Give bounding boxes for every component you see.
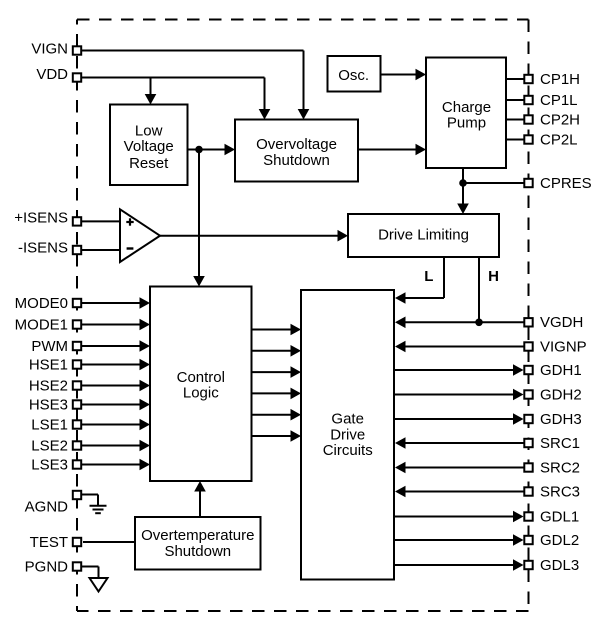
svg-text:Circuits: Circuits xyxy=(323,442,373,459)
svg-text:-ISENS: -ISENS xyxy=(18,240,68,257)
svg-text:CP1L: CP1L xyxy=(540,92,578,109)
svg-text:Overtemperature: Overtemperature xyxy=(141,527,254,544)
svg-text:L: L xyxy=(424,268,433,285)
svg-text:LSE3: LSE3 xyxy=(31,456,68,473)
svg-text:HSE3: HSE3 xyxy=(29,396,68,413)
svg-text:LSE1: LSE1 xyxy=(31,416,68,433)
svg-text:HSE2: HSE2 xyxy=(29,377,68,394)
svg-text:MODE1: MODE1 xyxy=(15,316,68,333)
svg-text:PGND: PGND xyxy=(25,558,69,575)
svg-text:CP1H: CP1H xyxy=(540,71,580,88)
svg-text:Pump: Pump xyxy=(447,114,486,131)
svg-text:GDH3: GDH3 xyxy=(540,411,582,428)
svg-text:CPRES: CPRES xyxy=(540,175,592,192)
svg-text:Shutdown: Shutdown xyxy=(164,543,231,560)
svg-text:CP2L: CP2L xyxy=(540,131,578,148)
svg-text:VIGN: VIGN xyxy=(31,41,68,58)
svg-text:SRC3: SRC3 xyxy=(540,483,580,500)
svg-text:GDL1: GDL1 xyxy=(540,508,579,525)
svg-text:GDL2: GDL2 xyxy=(540,532,579,549)
svg-text:H: H xyxy=(488,268,499,285)
svg-text:SRC2: SRC2 xyxy=(540,459,580,476)
svg-text:Drive: Drive xyxy=(330,426,365,443)
svg-text:+ISENS: +ISENS xyxy=(14,210,68,227)
svg-text:Overvoltage: Overvoltage xyxy=(256,136,337,153)
svg-text:CP2H: CP2H xyxy=(540,111,580,128)
svg-text:Control: Control xyxy=(177,369,225,386)
svg-text:LSE2: LSE2 xyxy=(31,437,68,454)
svg-text:PWM: PWM xyxy=(31,338,68,355)
svg-text:GDH1: GDH1 xyxy=(540,362,582,379)
svg-text:AGND: AGND xyxy=(25,499,69,516)
svg-text:Logic: Logic xyxy=(183,385,219,402)
svg-text:Reset: Reset xyxy=(129,155,169,172)
svg-text:SRC1: SRC1 xyxy=(540,435,580,452)
svg-text:GDL3: GDL3 xyxy=(540,557,579,574)
svg-text:Voltage: Voltage xyxy=(124,138,174,155)
svg-text:Osc.: Osc. xyxy=(338,67,369,84)
svg-text:TEST: TEST xyxy=(30,534,68,551)
svg-text:Drive Limiting: Drive Limiting xyxy=(378,227,469,244)
svg-text:MODE0: MODE0 xyxy=(15,295,68,312)
svg-text:Shutdown: Shutdown xyxy=(263,152,330,169)
svg-text:VGDH: VGDH xyxy=(540,314,583,331)
svg-text:HSE1: HSE1 xyxy=(29,356,68,373)
svg-text:Low: Low xyxy=(135,122,163,139)
svg-text:Gate: Gate xyxy=(331,411,364,428)
svg-text:VDD: VDD xyxy=(36,66,68,83)
svg-text:VIGNP: VIGNP xyxy=(540,338,587,355)
svg-text:GDH2: GDH2 xyxy=(540,386,582,403)
